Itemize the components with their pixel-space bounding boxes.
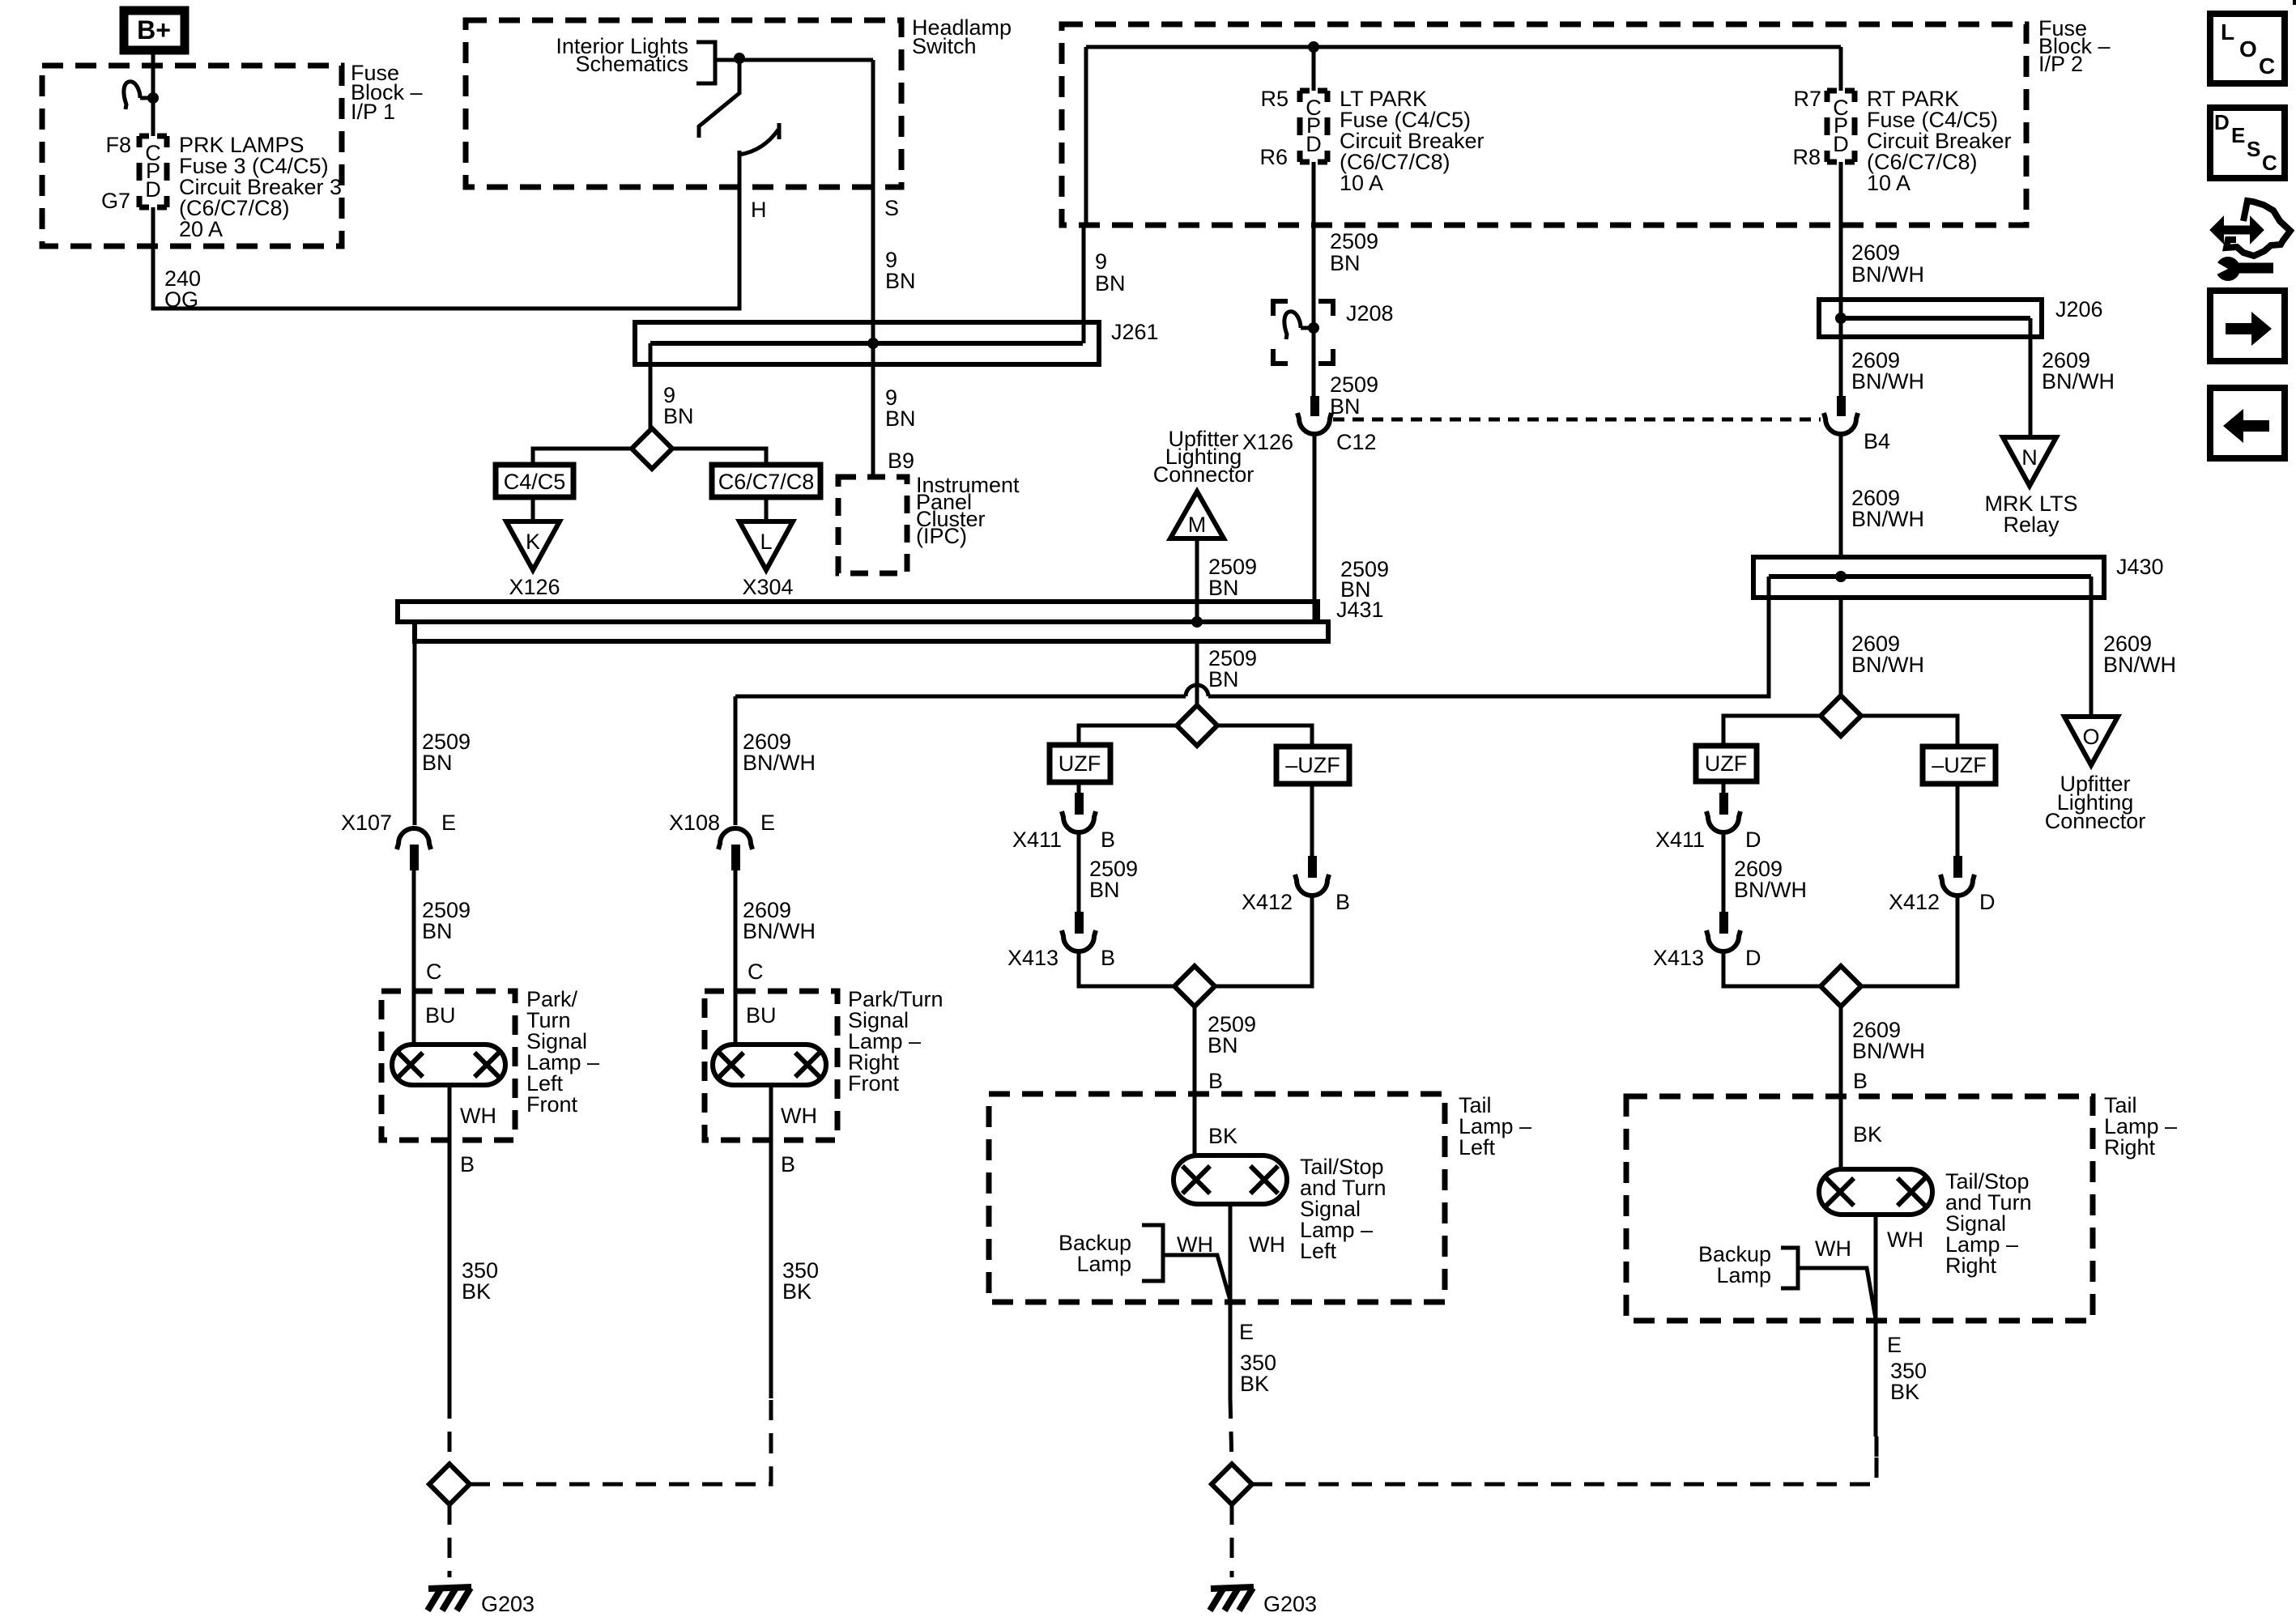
wire 2509 BN M arrow to J431 [1195, 538, 1199, 622]
svg-text:X304: X304 [742, 575, 793, 599]
svg-text:O: O [2082, 725, 2099, 749]
box UZF (right) [1696, 746, 1757, 781]
park/turn signal lamp left front dashed outline [381, 991, 515, 1140]
male terminal at X413 (left) [1075, 912, 1084, 934]
park/turn signal lamp right front dashed outline [705, 991, 837, 1140]
in-line connector X413 pin D [1706, 930, 1740, 951]
svg-text:B4: B4 [1864, 429, 1890, 453]
svg-text:L: L [760, 530, 772, 554]
battery B+ symbol [124, 11, 185, 50]
bracket to interior lights schematics [696, 42, 715, 83]
legend icon forward arrow [2210, 291, 2285, 361]
svg-text:E: E [1887, 1333, 1902, 1357]
wire -UZF to X412 [1310, 784, 1314, 857]
svg-text:B: B [1101, 828, 1115, 852]
svg-text:J261: J261 [1111, 320, 1159, 344]
svg-text:D: D [1745, 946, 1761, 970]
svg-text:UZF: UZF [1705, 751, 1747, 776]
svg-text:WH: WH [1887, 1228, 1923, 1252]
park/turn signal lamp left front bulb [392, 1045, 505, 1085]
wire 2609 BN/WH X411 to X413 [1722, 831, 1726, 913]
svg-text:C6/C7/C8: C6/C7/C8 [718, 470, 815, 494]
switch arm (pole contact) [699, 63, 739, 138]
wire 2609 BN/WH RT PARK to J206 [1839, 162, 1843, 318]
ground splice diamond (right) [1212, 1464, 1252, 1504]
wire bus to RT PARK fuse [1839, 47, 1843, 91]
ground splice diamond (left) [429, 1464, 470, 1504]
svg-text:G203: G203 [1263, 1592, 1317, 1616]
svg-text:D: D [2214, 110, 2230, 134]
svg-text:C: C [2262, 151, 2277, 175]
svg-text:C: C [748, 960, 764, 984]
svg-text:J431: J431 [1336, 598, 1384, 622]
in-line connector X412 pin D [1940, 874, 1974, 896]
wire 2609 BN/WH J430 to diamond [1839, 598, 1843, 696]
svg-text:S: S [2247, 137, 2260, 161]
svg-text:BK: BK [1853, 1122, 1882, 1147]
circuit breaker symbol in J208 [1284, 312, 1319, 339]
svg-text:N: N [2021, 445, 2038, 470]
svg-text:X412: X412 [1889, 890, 1940, 914]
dashed wire tail lamp right ground [1875, 1436, 1879, 1464]
svg-text:S: S [884, 196, 899, 220]
wire 2509 BN J431 to diamond [1195, 641, 1199, 705]
svg-text:–UZF: –UZF [1285, 753, 1340, 777]
splice pack J261 [635, 322, 1099, 364]
bracket backup lamp left [1142, 1225, 1163, 1281]
wire UZF to X411 (right) [1722, 781, 1726, 794]
svg-text:B: B [1335, 890, 1350, 914]
male terminal at C12 [1310, 396, 1319, 416]
junction dot LT PARK tap [1308, 41, 1319, 53]
wire X413 to lower diamond (right) [1723, 950, 1822, 986]
svg-text:D: D [1306, 132, 1322, 156]
wire backup lamp right [1798, 1268, 1876, 1319]
svg-text:D: D [1745, 828, 1761, 852]
wire 2609 BN/WH to X108 [734, 696, 738, 825]
legend icon DESC [2210, 108, 2285, 178]
wire 9 BN from switch S through J261 to IPC B9 [871, 60, 875, 477]
wire J430 left exit [1767, 577, 1771, 598]
wire 2609 BN/WH horizontal run from J430 [1208, 598, 1769, 696]
svg-text:BU: BU [746, 1003, 777, 1028]
ground G203 (left) [428, 1587, 471, 1611]
legend icon LOC [2210, 14, 2285, 83]
in-line connector X126 pin C12 [1297, 413, 1331, 434]
off-page connector L [739, 521, 793, 570]
tail lamp right dashed outline [1626, 1096, 2093, 1321]
wire 2609 BN/WH B4 to J430 [1839, 432, 1843, 557]
wire 2609 BN/WH J206 to MRK LTS relay [2029, 318, 2033, 437]
svg-text:L: L [2221, 19, 2234, 45]
junction dot at switch pole [734, 53, 745, 64]
in-line connector X411 pin D [1706, 811, 1740, 832]
svg-text:E: E [1239, 1320, 1254, 1344]
wire UZF to X411 [1077, 782, 1081, 794]
junction dot S wire on J261 bus [867, 338, 879, 349]
wire 2609 BN/WH X108 to lamp [734, 870, 738, 1047]
connector pack boundary dashed line [1333, 418, 1821, 422]
svg-text:X413: X413 [1007, 946, 1059, 970]
box C4/C5 [496, 465, 573, 497]
svg-text:H: H [751, 198, 767, 222]
wire X412 to lower diamond [1215, 894, 1312, 986]
dashed wire to G203 [448, 1504, 452, 1577]
wire to UZF option [1079, 726, 1177, 745]
wire X413 to lower diamond [1079, 950, 1176, 986]
svg-text:C: C [426, 960, 442, 984]
legend icon adjust (hand and wrench) [2209, 201, 2290, 281]
switch wiper arc [739, 123, 779, 155]
box -UZF (left) [1276, 747, 1349, 784]
male terminal at X412 (right) [1953, 856, 1962, 878]
box UZF (left) [1050, 745, 1110, 782]
svg-text:E: E [760, 811, 775, 835]
svg-text:X411: X411 [1655, 828, 1705, 852]
tail/stop and turn signal lamp right bulb [1819, 1169, 1932, 1215]
wire to C6/C7/C8 page reference [672, 449, 766, 465]
in-line connector B4 [1824, 413, 1858, 434]
svg-text:R6: R6 [1259, 145, 1288, 169]
svg-text:X412: X412 [1242, 890, 1293, 914]
wire 2609 BN/WH J430 to O arrow [2089, 577, 2094, 717]
wire -UZF to X412 (right) [1956, 784, 1960, 857]
box C6/C7/C8 [712, 465, 820, 497]
off-page connector N (MRK LTS relay) [2003, 437, 2056, 486]
in-line connector X413 pin B [1062, 930, 1096, 951]
splice pack J431 [398, 602, 1328, 641]
page edge mark [2293, 0, 2296, 5]
svg-text:B: B [1208, 1069, 1223, 1093]
svg-text:WH: WH [1815, 1236, 1851, 1261]
wire hop over 2509 BN wire [1186, 685, 1208, 696]
fuse/circuit-breaker R7-R8 RT PARK (C P D) [1827, 91, 1855, 162]
box -UZF (right) [1923, 747, 1996, 784]
wire bus to LT PARK fuse [1312, 47, 1316, 91]
svg-text:240OG: 240OG [164, 266, 201, 312]
wire B+ to fuse F8 input [151, 50, 155, 136]
wire 350 BK lamp to ground splice [448, 1085, 452, 1398]
dashed wire to ground diamond (right) [1230, 1398, 1232, 1464]
wire 9 BN from fuse block I/P 2 into J261 [1082, 225, 1086, 343]
svg-text:B: B [1101, 946, 1115, 970]
wire 240 OG from fuse G7 to headlamp switch H [153, 151, 739, 309]
svg-text:WH: WH [460, 1104, 496, 1128]
in-line connector X107 (female) [397, 828, 431, 849]
svg-text:X413: X413 [1653, 946, 1704, 970]
wire WH/350 BK tail lamp left down [1229, 1204, 1233, 1398]
wire 2609 BN/WH to tail lamp right [1839, 1006, 1843, 1172]
male terminal below X107 [410, 845, 419, 870]
wire WH/350 BK tail lamp right down [1874, 1215, 1878, 1436]
legend icon back arrow [2210, 388, 2285, 458]
wire 2509 BN J431 to X107 [413, 622, 417, 825]
in-line connector X108 (female) [718, 828, 752, 849]
svg-text:B: B [460, 1152, 475, 1177]
wire C6/C7/C8 box to L arrow [765, 497, 769, 522]
svg-text:BK: BK [1208, 1124, 1237, 1148]
svg-text:–UZF: –UZF [1932, 753, 1987, 777]
splice diamond 2509 BN [1177, 705, 1217, 746]
wire 2509 BN LT PARK through J208 to X126 [1312, 162, 1316, 398]
wire to C4/C5 page reference [533, 449, 632, 465]
svg-text:G203: G203 [481, 1592, 535, 1616]
in-line connector X411 pin B [1062, 811, 1096, 832]
junction dot on J206 bus [1835, 313, 1847, 324]
wire to -UZF option [1217, 726, 1312, 747]
in-line connector X412 pin B [1295, 874, 1329, 896]
wire to UZF option (right) [1723, 716, 1821, 746]
ground G203 (right) [1210, 1587, 1254, 1611]
wire 2609 BN/WH horizontal run (left part) [735, 695, 1186, 699]
svg-text:J430: J430 [2116, 555, 2164, 579]
wire 2509 BN X411 to X413 [1077, 831, 1081, 913]
svg-text:G7: G7 [101, 189, 130, 213]
tail/stop and turn signal lamp left bulb [1174, 1155, 1287, 1204]
off-page connector M (upfitter) [1170, 491, 1224, 538]
fuse/circuit-breaker R5-R6 LT PARK (C P D) [1300, 91, 1327, 162]
svg-text:D: D [1979, 890, 1996, 914]
tail lamp left dashed outline [989, 1094, 1445, 1302]
fuse block I/P 1 dashed outline [42, 66, 342, 246]
dashed ground wire to right front lamp [470, 1400, 771, 1484]
svg-text:F8: F8 [105, 133, 131, 157]
off-page connector K [506, 521, 560, 570]
svg-text:K: K [526, 530, 540, 554]
circuit breaker symbol on F8 feed [124, 82, 159, 109]
svg-text:D: D [1833, 132, 1849, 156]
svg-text:O: O [2239, 36, 2257, 62]
svg-text:C12: C12 [1336, 430, 1377, 454]
male terminal at X411 (right) [1719, 793, 1728, 815]
dashed wire to G203 (right) [1230, 1504, 1234, 1577]
headlamp switch dashed outline [466, 20, 901, 187]
male terminal at B4 [1837, 396, 1846, 416]
wire 9 BN J261 to splice diamond [649, 343, 653, 428]
svg-text:X126: X126 [509, 575, 560, 599]
wire switch feed to S terminal [715, 58, 873, 62]
instrument panel cluster dashed outline [838, 477, 907, 573]
splice diamond to tail lamp right [1821, 966, 1861, 1006]
wire X412 to lower diamond (right) [1861, 894, 1957, 986]
splice diamond 2609 BN/WH [1821, 696, 1861, 736]
svg-text:E: E [2231, 123, 2245, 147]
svg-text:B+: B+ [137, 15, 171, 45]
svg-text:X411: X411 [1012, 828, 1062, 852]
svg-text:D: D [145, 177, 161, 202]
dashed ground wire to tail lamp right [1252, 1436, 1876, 1484]
splice diamond (9 BN branch) [632, 428, 672, 469]
wire 2509 BN X126 to J431 [1313, 432, 1317, 622]
splice pack J430 [1753, 557, 2104, 598]
svg-text:E: E [441, 811, 456, 835]
wire bus down to 9 BN exit [1084, 47, 1088, 225]
svg-text:X108: X108 [669, 811, 720, 835]
svg-text:B9: B9 [888, 449, 914, 473]
fuse block I/P 2 internal bus [1086, 45, 1841, 49]
svg-text:J208: J208 [1346, 301, 1394, 326]
junction dot on J431 bus [1191, 616, 1203, 628]
male terminal below X108 [731, 845, 740, 870]
svg-text:B: B [781, 1152, 795, 1177]
male terminal at X413 (right) [1719, 912, 1728, 934]
wire C4/C5 box to K arrow [531, 497, 535, 522]
wire 2509 BN to tail lamp left [1193, 1006, 1197, 1158]
off-page connector O (upfitter) [2064, 717, 2118, 765]
svg-text:WH: WH [1249, 1232, 1285, 1257]
svg-text:UZF: UZF [1059, 751, 1101, 776]
park/turn signal lamp right front bulb [713, 1045, 826, 1085]
wire to -UZF option (right) [1861, 716, 1957, 747]
splice pack J206 [1819, 300, 2042, 337]
wire dashed to ground diamond [448, 1398, 452, 1464]
fuse/circuit-breaker F8-G7 PRK LAMPS (C P D) [139, 136, 167, 207]
splice diamond to tail lamp left [1174, 966, 1215, 1006]
svg-text:J206: J206 [2055, 297, 2103, 321]
wire backup lamp left [1163, 1255, 1230, 1300]
svg-text:X126: X126 [1242, 430, 1293, 454]
bracket backup lamp right [1781, 1248, 1798, 1288]
svg-text:Interior LightsSchematics: Interior LightsSchematics [556, 34, 688, 76]
svg-text:C: C [2259, 53, 2275, 79]
svg-text:BU: BU [425, 1003, 456, 1028]
svg-text:X107: X107 [341, 811, 392, 835]
junction dot on J430 bus [1835, 571, 1847, 582]
svg-text:M: M [1188, 513, 1207, 537]
male terminal at X412 (left) [1308, 856, 1317, 878]
wire 2509 BN X107 to lamp [412, 870, 416, 1047]
male terminal at X411 (left) [1075, 793, 1084, 815]
fuse block I/P 2 dashed outline [1062, 24, 2026, 225]
svg-text:WH: WH [781, 1104, 817, 1128]
svg-text:B: B [1853, 1069, 1868, 1093]
wire 2609 BN/WH J206 to B4 [1839, 318, 1843, 398]
svg-text:C4/C5: C4/C5 [504, 470, 566, 494]
connector J208 dashed outline [1273, 301, 1333, 364]
wire 350 BK right front lamp down [769, 1085, 773, 1398]
svg-text:R8: R8 [1792, 145, 1821, 169]
svg-text:R7: R7 [1793, 87, 1821, 111]
svg-text:R5: R5 [1260, 87, 1289, 111]
